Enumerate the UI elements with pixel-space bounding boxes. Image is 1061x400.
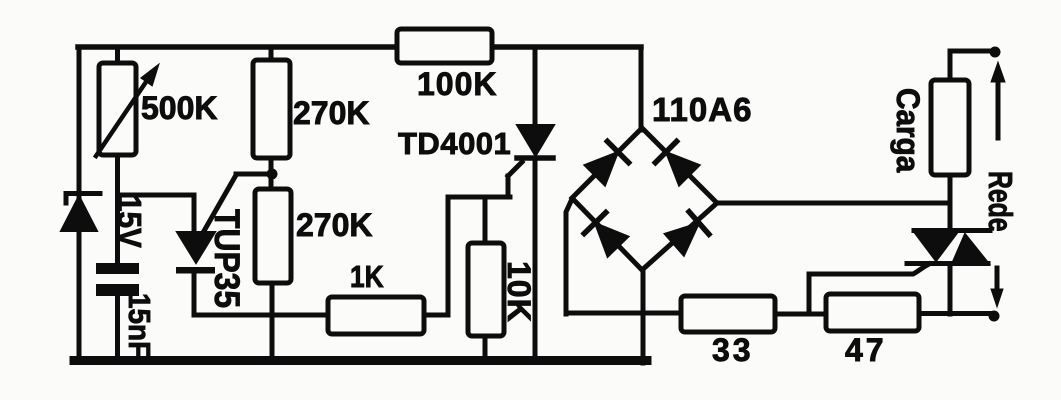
wire base diagonal from divider	[200, 174, 268, 238]
bridge diode bottom-left	[595, 223, 628, 257]
svg-text:Carga: Carga	[890, 88, 926, 173]
wire TUP35 base branch	[118, 195, 195, 234]
transistor TUP35 (diode symbol)	[176, 232, 215, 315]
svg-text:Rede: Rede	[981, 171, 1017, 231]
node terminal bottom	[989, 311, 1000, 322]
svg-text:1K: 1K	[350, 260, 384, 294]
bridge diode top-right	[666, 152, 700, 186]
resistor 10K	[468, 243, 504, 360]
svg-text:47: 47	[845, 332, 887, 368]
wire node to 1K	[194, 313, 328, 318]
triac	[809, 203, 990, 314]
resistor 270K upper	[253, 47, 290, 190]
capacitor C1 15nF	[96, 263, 139, 296]
wire bridge left to 33	[566, 311, 682, 316]
wire pot branch	[115, 47, 120, 360]
svg-text:500K: 500K	[141, 90, 218, 126]
svg-text:TUP35: TUP35	[207, 209, 246, 308]
svg-text:TD4001: TD4001	[398, 126, 511, 161]
node divider junction	[267, 169, 278, 180]
diode bridge 110A6	[566, 47, 949, 363]
wire 1K right to gate net	[424, 197, 510, 315]
svg-text:270K: 270K	[293, 95, 370, 131]
svg-text:270K: 270K	[296, 207, 373, 243]
svg-text:15nF: 15nF	[122, 293, 157, 358]
resistor 47	[826, 294, 919, 331]
resistor 270K lower	[255, 189, 291, 360]
resistor 1K	[328, 297, 424, 334]
wire bridge left lead	[566, 199, 572, 314]
wire bridge right lead	[716, 201, 949, 206]
resistor Carga	[931, 51, 991, 202]
resistor 33	[681, 296, 775, 332]
wire bridge bottom lead	[641, 271, 646, 363]
wire 47 to terminal	[919, 311, 991, 316]
svg-text:100K: 100K	[417, 66, 498, 102]
wire bridge top lead	[639, 47, 644, 130]
arrow down (Rede)	[991, 268, 1003, 307]
bridge diode top-left	[585, 152, 619, 186]
triac gate	[809, 264, 929, 313]
SCR TD4001	[508, 47, 554, 360]
svg-text:33: 33	[712, 332, 754, 368]
resistor 100K	[397, 29, 492, 63]
wire left rail	[77, 47, 82, 359]
wire top rail	[78, 44, 641, 50]
svg-text:10K: 10K	[501, 261, 537, 323]
zener diode D1 15V	[61, 194, 100, 232]
node terminal top	[990, 47, 1001, 58]
potentiometer 500K	[96, 63, 159, 156]
bridge diode bottom-right	[665, 223, 699, 256]
wire 33 to 47	[775, 312, 826, 317]
svg-text:110A6: 110A6	[652, 91, 752, 128]
wire bottom thick rail	[74, 356, 647, 365]
arrow up (Rede)	[991, 62, 1005, 138]
bridge diamond	[572, 128, 717, 270]
